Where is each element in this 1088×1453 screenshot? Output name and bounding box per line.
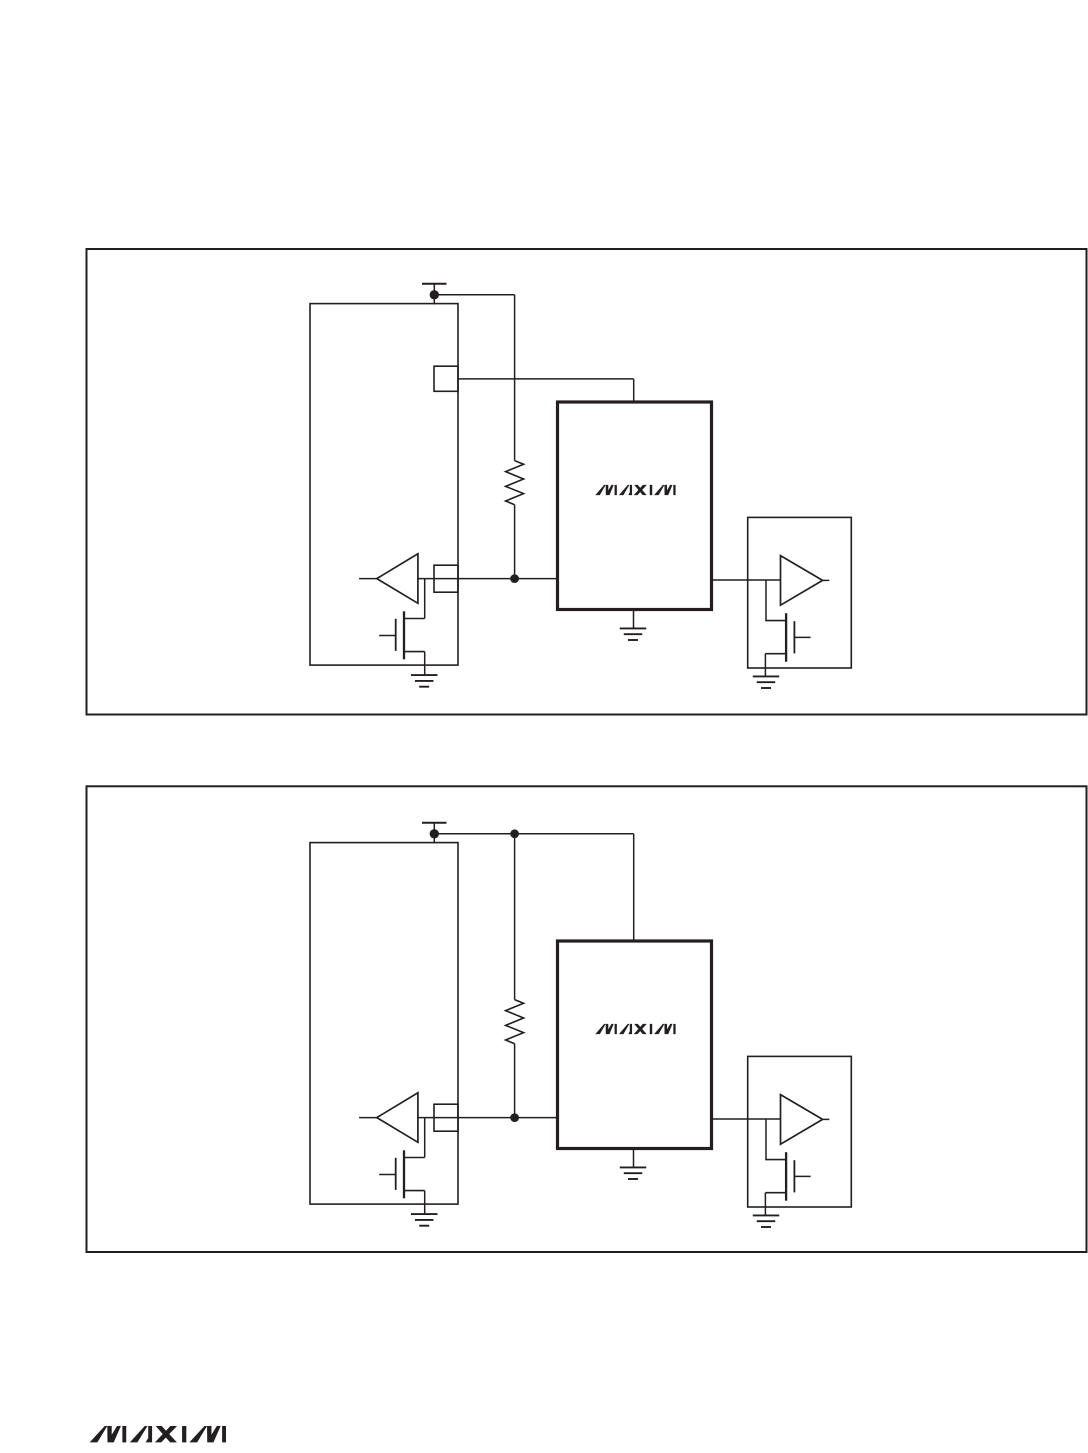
ground: below MAXIM IC	[620, 1166, 647, 1168]
buffer U1: input inverter triangle (points left)	[377, 554, 418, 604]
wire: MAXIM IC output to load block	[712, 579, 781, 581]
node: supply junction dot	[430, 290, 439, 299]
node: supply junction dot	[430, 829, 439, 838]
label: MAXIM logo inside IC	[595, 1024, 675, 1034]
controller block outline (left rectangle)	[310, 843, 458, 1205]
wire: Q1 source to ground	[424, 652, 426, 676]
ground: below Q1	[411, 1213, 438, 1215]
op-amp/supervisor U2: MAXIM IC box	[558, 941, 712, 1149]
buffer U1: input inverter triangle (points left)	[377, 1093, 418, 1143]
resistor R (pullup)	[506, 1000, 524, 1044]
pin pad: upper I/O pin square on controller block	[434, 366, 458, 391]
wire: buffer/pin to MAXIM IC OUT pin	[418, 1117, 558, 1119]
wire: receiver output stub	[823, 1118, 830, 1120]
wire: V+ supply bar (figure 2)	[422, 822, 447, 824]
wire: drop from input line to Q2 drain	[765, 1119, 767, 1160]
transistor Q2: input-protection NMOS (right)	[765, 1159, 786, 1161]
wire: resistor top lead	[514, 834, 516, 1000]
wire: drop from buffer line to Q1 drain	[424, 579, 426, 619]
buffer U3: receiver triangle (points right)	[781, 1095, 823, 1145]
wire: supply stub down to controller block	[433, 823, 435, 844]
wire: drop from input line to Q2 drain	[765, 580, 767, 621]
wire: resistor bottom lead to output node	[514, 505, 516, 579]
figure 2 frame	[87, 786, 1087, 1252]
wire: buffer/pin to MAXIM IC OUT pin	[418, 578, 558, 580]
wire: MAXIM IC GND pin	[633, 1149, 635, 1168]
wire: resistor bottom lead to output node	[514, 1044, 516, 1118]
label: MAXIM logo inside IC	[595, 485, 675, 495]
wire: input stub to gate buffer	[359, 578, 377, 580]
wire: upper pin to MAXIM IC top (IN pin)	[458, 378, 634, 380]
op-amp/supervisor U2: MAXIM IC box	[558, 402, 712, 610]
wire: receiver output stub	[823, 579, 830, 581]
load block outline (right rectangle)	[748, 517, 852, 668]
wire: Q1 source to ground	[424, 1191, 426, 1215]
wire: drop from buffer line to Q1 drain	[424, 1118, 426, 1158]
node: open-drain output junction dot	[510, 1113, 519, 1122]
resistor R (pullup)	[506, 461, 524, 505]
wire: supply stub down to controller block	[433, 284, 435, 305]
wire: Q2 source to ground	[764, 654, 766, 677]
transistor Q1: open-drain NMOS (left)	[404, 618, 425, 620]
ground: below Q1	[411, 674, 438, 676]
wire: V+ supply bar (figure 1)	[422, 283, 447, 285]
controller block outline (left rectangle)	[310, 304, 458, 665]
pin pad: lower I/O pin square on controller block	[434, 1104, 458, 1131]
pin pad: lower I/O pin square on controller block	[434, 565, 458, 592]
node: open-drain output junction dot	[510, 574, 519, 583]
wire: supply dot to resistor top	[434, 294, 514, 296]
ground: below MAXIM IC	[620, 627, 647, 629]
wire: supply dot across to MAXIM IC top (IN pin)	[434, 833, 633, 835]
wire: MAXIM IC output to load block	[712, 1118, 781, 1120]
wire: MAXIM IC GND pin	[633, 610, 635, 629]
wire: input stub to gate buffer	[359, 1117, 377, 1119]
buffer U3: receiver triangle (points right)	[781, 556, 823, 606]
node: junction dot at resistor top	[510, 829, 519, 838]
wire: Q2 source to ground	[764, 1193, 766, 1216]
figure 1 frame	[87, 249, 1087, 715]
label: MAXIM logo page footer	[90, 1426, 226, 1442]
transistor Q1: open-drain NMOS (left)	[404, 1157, 425, 1159]
ground: below Q2	[753, 1214, 780, 1216]
load block outline (right rectangle)	[748, 1056, 852, 1207]
transistor Q2: input-protection NMOS (right)	[765, 620, 786, 622]
ground: below Q2	[753, 675, 780, 677]
